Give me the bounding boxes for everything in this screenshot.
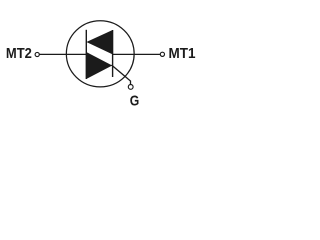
svg-text:G: G <box>130 94 140 110</box>
lower thyristor triangle (points right) <box>86 52 112 79</box>
wire MT2 terminal to left bar <box>39 53 86 55</box>
upper thyristor triangle (points left) <box>86 30 112 54</box>
terminal MT1 <box>160 52 164 56</box>
left bar (MT2-side electrode) <box>85 30 87 79</box>
svg-text:MT1: MT1 <box>169 46 196 62</box>
right bar (MT1-side electrode) <box>112 30 114 77</box>
wire right bar to MT1 terminal <box>113 53 161 55</box>
gate wire <box>112 65 131 85</box>
terminal G <box>128 85 133 90</box>
svg-text:MT2: MT2 <box>6 46 32 62</box>
triac body circle <box>66 21 134 87</box>
terminal MT2 <box>35 52 39 56</box>
